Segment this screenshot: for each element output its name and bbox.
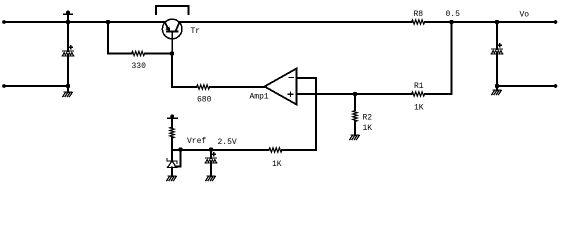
svg-text:330: 330 xyxy=(132,62,147,71)
svg-text:1K: 1K xyxy=(272,160,282,169)
svg-text:2.5V: 2.5V xyxy=(218,138,237,147)
svg-text:Amp1: Amp1 xyxy=(250,92,269,101)
svg-text:Vref: Vref xyxy=(187,137,206,146)
svg-text:680: 680 xyxy=(197,96,212,105)
svg-text:Tr: Tr xyxy=(191,27,201,36)
svg-text:R1: R1 xyxy=(414,82,424,91)
svg-text:Vo: Vo xyxy=(520,10,530,19)
svg-text:1K: 1K xyxy=(414,104,424,113)
svg-text:1K: 1K xyxy=(363,124,373,133)
svg-text:R8: R8 xyxy=(414,10,424,19)
svg-text:R2: R2 xyxy=(363,114,373,123)
svg-text:0.5: 0.5 xyxy=(446,10,461,19)
